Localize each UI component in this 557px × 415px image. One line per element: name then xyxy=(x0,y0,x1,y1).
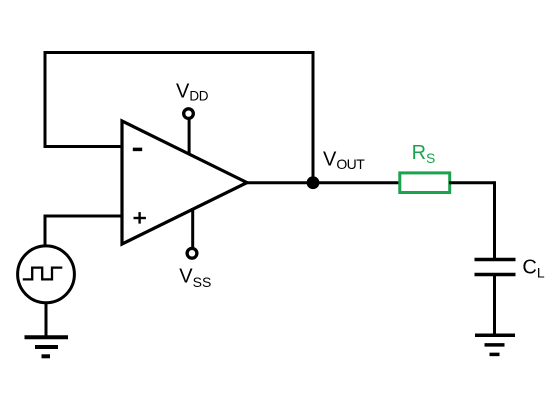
source V1 square-wave generator xyxy=(18,246,75,303)
wire: down to capacitor xyxy=(493,181,496,259)
wire: source up to noninverting input xyxy=(44,216,47,246)
op-amp U1 xyxy=(122,121,247,244)
wire: op-amp output to resistor xyxy=(246,181,400,184)
VSS pin terminal xyxy=(187,248,197,258)
node VOUT junction dot xyxy=(307,176,320,189)
ground (left, below source) xyxy=(25,337,69,356)
wire: feedback left vertical down to inverting input xyxy=(44,51,47,148)
wire: feedback right vertical down to VOUT node xyxy=(312,51,315,183)
wire: VDD pin to op-amp xyxy=(188,118,191,155)
wire: source to ground xyxy=(45,302,48,338)
VDD pin terminal xyxy=(184,109,194,119)
wire: resistor to capacitor top xyxy=(449,181,495,184)
wire: inverting input xyxy=(44,145,124,148)
wire: capacitor to ground xyxy=(493,275,496,337)
capacitor CL xyxy=(475,260,516,275)
wire: noninverting input xyxy=(44,215,124,218)
resistor RS xyxy=(400,173,450,193)
wire: top feedback rail xyxy=(44,51,315,54)
wire: VSS pin to op-amp xyxy=(191,208,194,249)
ground (right, below CL) xyxy=(475,335,515,354)
